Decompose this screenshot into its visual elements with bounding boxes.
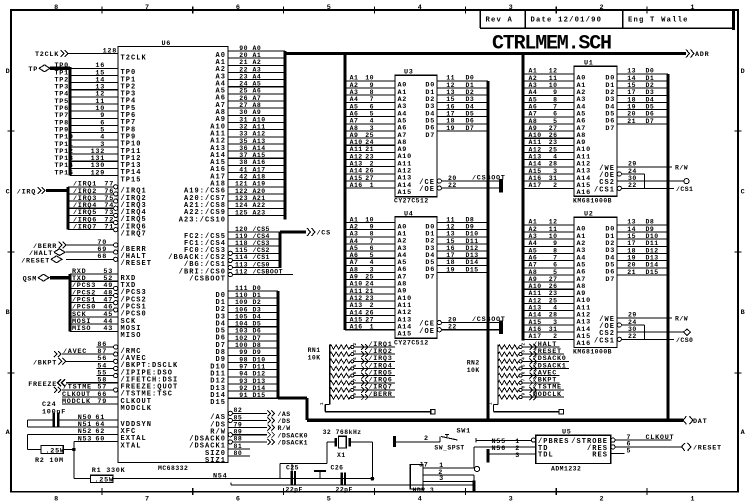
U6 pin /IRQ5 bbox=[68, 214, 114, 216]
svg-text:A12: A12 bbox=[253, 131, 266, 138]
svg-text:21: 21 bbox=[365, 288, 374, 295]
RN1 resistor 1 bbox=[330, 345, 351, 349]
U2 pin /CS1 bbox=[617, 337, 621, 341]
wire osc loop bbox=[279, 463, 281, 478]
U6 pin /BG:/CS1 bbox=[232, 259, 280, 261]
svg-text:.25W: .25W bbox=[95, 477, 114, 485]
svg-text:C26: C26 bbox=[331, 464, 344, 471]
svg-text:2: 2 bbox=[424, 435, 429, 443]
svg-text:23: 23 bbox=[365, 295, 374, 302]
U6 pin /PCS2 bbox=[70, 295, 114, 297]
svg-text:3: 3 bbox=[370, 125, 374, 132]
U3 pin D6 bbox=[437, 123, 488, 125]
svg-text:N56: N56 bbox=[492, 445, 506, 453]
svg-text:24: 24 bbox=[365, 139, 374, 146]
U1 pin CS2 bbox=[617, 180, 684, 182]
svg-text:A9: A9 bbox=[350, 274, 359, 281]
svg-text:A6: A6 bbox=[253, 88, 262, 95]
svg-text:D1: D1 bbox=[253, 292, 262, 299]
svg-text:/DSACK0: /DSACK0 bbox=[278, 432, 308, 439]
svg-text:25: 25 bbox=[239, 88, 248, 95]
svg-text:20: 20 bbox=[239, 52, 248, 59]
svg-text:D14: D14 bbox=[646, 262, 659, 269]
U6 pin TP5 bbox=[70, 103, 118, 105]
svg-text:129: 129 bbox=[91, 169, 105, 177]
test point on N54 bbox=[314, 470, 326, 472]
svg-text:D0: D0 bbox=[253, 285, 262, 292]
svg-text:D1: D1 bbox=[466, 82, 475, 89]
svg-text:R/W: R/W bbox=[675, 164, 688, 171]
wire N54 bbox=[113, 478, 372, 480]
svg-text:SW_SPST: SW_SPST bbox=[434, 444, 464, 451]
RN2 resistor 2 bbox=[498, 352, 519, 356]
svg-text:A10: A10 bbox=[529, 283, 542, 290]
svg-text:B: B bbox=[6, 309, 11, 317]
svg-text:98: 98 bbox=[239, 356, 248, 363]
svg-text:D15: D15 bbox=[646, 269, 659, 276]
U6 pin 128 T2CLK bbox=[69, 53, 119, 55]
svg-text:D11: D11 bbox=[646, 240, 659, 247]
svg-text:26: 26 bbox=[365, 168, 374, 175]
svg-text:26: 26 bbox=[239, 95, 248, 102]
svg-text:N53: N53 bbox=[78, 435, 92, 443]
U6 pin A3 bbox=[228, 71, 285, 73]
U4 pin D15 bbox=[437, 272, 488, 274]
svg-text:8: 8 bbox=[370, 231, 374, 238]
svg-text:A10: A10 bbox=[253, 116, 266, 123]
wire TP bus bbox=[50, 67, 70, 70]
RN2 resistor 5 bbox=[498, 373, 519, 377]
svg-text:R2 10M: R2 10M bbox=[35, 457, 64, 465]
U6 pin MODCLK bbox=[62, 403, 118, 405]
U6 pin /BGACK:/CS2 bbox=[232, 252, 280, 254]
U6 pin /IPIPE:DSO bbox=[97, 367, 114, 369]
port /RESET bbox=[682, 443, 685, 451]
U1 pin A8 bbox=[523, 130, 574, 132]
wire U6 data bus bbox=[276, 291, 279, 398]
svg-text:5: 5 bbox=[370, 110, 374, 117]
svg-text:15: 15 bbox=[446, 96, 455, 103]
U6 pin /IRQ2 bbox=[68, 193, 114, 195]
U6 pin D13 bbox=[228, 383, 278, 385]
svg-text:2: 2 bbox=[599, 496, 604, 504]
U6 pin SIZ0 bbox=[228, 448, 250, 450]
U1 pin /WE bbox=[617, 166, 672, 168]
svg-text:A11: A11 bbox=[350, 288, 363, 295]
svg-text:D6: D6 bbox=[466, 118, 475, 125]
svg-text:D15: D15 bbox=[466, 266, 479, 273]
U3 pin A14 bbox=[345, 180, 395, 182]
svg-text:A13: A13 bbox=[350, 302, 363, 309]
svg-text:A16: A16 bbox=[529, 175, 542, 182]
svg-text:A1: A1 bbox=[350, 216, 359, 223]
svg-text:A2: A2 bbox=[350, 223, 359, 230]
svg-text:22: 22 bbox=[239, 66, 248, 73]
svg-text:13: 13 bbox=[627, 68, 636, 75]
svg-text:/BERR: /BERR bbox=[369, 391, 393, 399]
svg-text:104: 104 bbox=[235, 321, 248, 328]
svg-text:XTAL: XTAL bbox=[121, 442, 142, 450]
svg-text:DAT: DAT bbox=[693, 418, 707, 426]
U4 pin /OE bbox=[437, 328, 441, 332]
U6 pin A13 bbox=[228, 143, 285, 145]
svg-text:A8: A8 bbox=[253, 102, 262, 109]
node /CSBOOT at U3 bbox=[499, 179, 503, 193]
svg-text:D13: D13 bbox=[466, 252, 479, 259]
svg-text:5: 5 bbox=[553, 269, 557, 276]
svg-text:A5: A5 bbox=[529, 96, 538, 103]
svg-text:A16: A16 bbox=[350, 182, 363, 189]
svg-text:RES: RES bbox=[592, 452, 608, 460]
svg-text:D2: D2 bbox=[253, 299, 262, 306]
svg-text:114: 114 bbox=[235, 254, 248, 261]
U4 pin A6 bbox=[345, 264, 395, 266]
svg-text:7: 7 bbox=[370, 238, 374, 245]
U4 pin D12 bbox=[437, 250, 488, 252]
svg-text:1: 1 bbox=[690, 496, 695, 504]
svg-text:14: 14 bbox=[627, 75, 636, 82]
svg-text:D14: D14 bbox=[253, 385, 266, 392]
svg-text:/CS0: /CS0 bbox=[676, 337, 693, 344]
svg-text:15: 15 bbox=[627, 82, 636, 89]
svg-text:23: 23 bbox=[365, 153, 374, 160]
svg-text:38: 38 bbox=[239, 159, 248, 166]
svg-text:A10: A10 bbox=[350, 281, 363, 288]
svg-text:U6: U6 bbox=[162, 40, 172, 48]
svg-text:D7: D7 bbox=[425, 132, 435, 140]
svg-text:93: 93 bbox=[239, 378, 248, 385]
svg-text:3: 3 bbox=[370, 266, 374, 273]
svg-text:23: 23 bbox=[239, 73, 248, 80]
svg-text:D10: D10 bbox=[466, 231, 479, 238]
U1 pin A4 bbox=[523, 102, 574, 104]
svg-text:A10: A10 bbox=[529, 132, 542, 139]
U6 pin A15 bbox=[228, 157, 285, 159]
RN2 resistor 3 bbox=[498, 359, 519, 363]
svg-text:88: 88 bbox=[234, 436, 243, 443]
svg-text:22: 22 bbox=[628, 182, 637, 189]
RN1 resistor 8 bbox=[330, 395, 351, 399]
svg-text:U5: U5 bbox=[562, 429, 572, 437]
svg-text:7: 7 bbox=[145, 4, 150, 12]
sram U2 box bbox=[574, 217, 617, 347]
svg-text:/AS: /AS bbox=[278, 411, 291, 418]
svg-text:118: 118 bbox=[235, 240, 248, 247]
svg-text:81: 81 bbox=[234, 443, 243, 450]
svg-text:U4: U4 bbox=[404, 210, 414, 218]
svg-text:110: 110 bbox=[235, 292, 248, 299]
svg-text:9: 9 bbox=[370, 223, 374, 230]
RN2 resistor 7 bbox=[498, 388, 519, 392]
svg-text:71: 71 bbox=[104, 224, 114, 232]
svg-text:3: 3 bbox=[509, 4, 514, 12]
U6 pin /BKPT:DSCLK bbox=[66, 360, 114, 362]
svg-text:A14: A14 bbox=[529, 161, 542, 168]
svg-text:D13: D13 bbox=[646, 254, 659, 261]
svg-text:D12: D12 bbox=[466, 245, 479, 252]
svg-text:/OE: /OE bbox=[419, 186, 435, 194]
svg-text:D4: D4 bbox=[646, 96, 655, 103]
svg-text:D8: D8 bbox=[253, 342, 262, 349]
svg-text:A23:/CS10: A23:/CS10 bbox=[179, 216, 226, 224]
U6 pin A0 bbox=[228, 50, 285, 52]
RN2 resistor 4 bbox=[498, 366, 519, 370]
svg-text:4: 4 bbox=[553, 305, 557, 312]
svg-text:A15: A15 bbox=[350, 316, 363, 323]
U2 pin D12 bbox=[617, 253, 668, 255]
U6 pin /IRQ7 bbox=[68, 229, 114, 231]
svg-text:MODCLK: MODCLK bbox=[121, 405, 153, 413]
U6 pin TP3 bbox=[70, 89, 118, 91]
svg-text:18: 18 bbox=[627, 247, 636, 254]
U6 pin A5 bbox=[228, 86, 285, 88]
U6 pin TP8 bbox=[70, 125, 118, 127]
U6 pin /RMC bbox=[97, 346, 114, 348]
wire R1 left bbox=[74, 478, 91, 480]
svg-text:32: 32 bbox=[239, 123, 248, 130]
port DAT bbox=[683, 416, 686, 424]
resistor R2 bbox=[41, 446, 63, 454]
svg-text:D5: D5 bbox=[646, 103, 655, 110]
svg-text:Rev A: Rev A bbox=[486, 17, 514, 25]
svg-text:D14: D14 bbox=[466, 259, 479, 266]
U3 pin A6 bbox=[345, 123, 395, 125]
RN1 resistor 5 bbox=[330, 373, 351, 377]
U6 pin /IFETCH:DSI bbox=[97, 375, 114, 377]
RN2 resistor 1 bbox=[498, 345, 519, 349]
svg-text:/CS1: /CS1 bbox=[676, 186, 693, 193]
svg-text:D12: D12 bbox=[253, 371, 266, 378]
svg-text:21: 21 bbox=[627, 269, 636, 276]
U6 pin /AS bbox=[232, 412, 267, 414]
U6 pin A4 bbox=[228, 79, 285, 81]
U6 pin /DSACK0 bbox=[232, 434, 267, 436]
svg-text:18: 18 bbox=[446, 259, 455, 266]
wire IRQ bus bbox=[46, 189, 68, 192]
svg-text:11: 11 bbox=[446, 75, 455, 82]
RN1 resistor 3 bbox=[330, 359, 351, 363]
svg-text:3: 3 bbox=[439, 475, 444, 483]
U6 pin FREEZE:QUOT bbox=[66, 382, 118, 384]
U2 pin /OE bbox=[617, 323, 621, 327]
svg-text:A1: A1 bbox=[529, 68, 538, 75]
U3 pin D7 bbox=[437, 130, 488, 132]
svg-text:4: 4 bbox=[418, 4, 423, 12]
svg-text:90: 90 bbox=[239, 45, 248, 52]
svg-text:125: 125 bbox=[235, 209, 248, 216]
svg-text:128: 128 bbox=[103, 47, 117, 55]
U1 pin D7 bbox=[617, 123, 668, 125]
U3 pin A5 bbox=[345, 116, 395, 118]
svg-text:A5: A5 bbox=[253, 81, 262, 88]
U6 pin D4 bbox=[228, 319, 278, 321]
U4 pin /CE bbox=[437, 321, 441, 325]
wire ground return bbox=[231, 484, 474, 486]
title block bbox=[479, 11, 481, 28]
svg-text:18: 18 bbox=[446, 118, 455, 125]
J7 pin 1 bbox=[423, 467, 474, 469]
U2 pin A0 bbox=[523, 224, 574, 226]
U6 pin D1 bbox=[228, 297, 278, 299]
J7 pin 2 bbox=[423, 474, 474, 476]
svg-text:A13: A13 bbox=[529, 305, 542, 312]
svg-text:D7: D7 bbox=[605, 276, 615, 284]
U6 pin TP2 bbox=[70, 82, 118, 84]
wire /OE to /CS1 bbox=[644, 174, 646, 188]
svg-text:C: C bbox=[741, 188, 746, 196]
wire N53 riser bbox=[73, 441, 75, 478]
U2 pin D8 bbox=[617, 224, 668, 226]
svg-text:60: 60 bbox=[95, 435, 105, 443]
svg-text:68: 68 bbox=[97, 253, 107, 261]
U4 pin A0 bbox=[345, 222, 395, 224]
svg-text:RN2: RN2 bbox=[467, 360, 480, 367]
svg-text:12: 12 bbox=[549, 68, 558, 75]
svg-text:7: 7 bbox=[145, 496, 150, 504]
svg-text:A5: A5 bbox=[529, 247, 538, 254]
U6 pin A11 bbox=[228, 129, 285, 131]
U4 pin A10 bbox=[345, 293, 395, 295]
svg-text:A11: A11 bbox=[253, 123, 266, 130]
wire RN1 common pin 1 bbox=[325, 404, 330, 406]
svg-text:X1: X1 bbox=[337, 452, 346, 459]
svg-text:D: D bbox=[741, 68, 746, 76]
svg-text:TP: TP bbox=[28, 66, 38, 74]
svg-text:19: 19 bbox=[627, 254, 636, 261]
svg-text:19: 19 bbox=[446, 266, 455, 273]
svg-text:105: 105 bbox=[235, 313, 248, 320]
svg-text:D7: D7 bbox=[605, 125, 615, 133]
U4 pin A2 bbox=[345, 236, 395, 238]
svg-text:10K: 10K bbox=[308, 355, 321, 362]
U3 pin A3 bbox=[345, 101, 395, 103]
svg-text:/DSACK1: /DSACK1 bbox=[278, 440, 308, 447]
svg-text:A16: A16 bbox=[529, 326, 542, 333]
svg-text:A12: A12 bbox=[529, 146, 542, 153]
U6 pin /DS bbox=[232, 419, 267, 421]
svg-text:CY27C512: CY27C512 bbox=[394, 198, 429, 205]
svg-text:3: 3 bbox=[509, 496, 514, 504]
U3 pin A8 bbox=[345, 137, 395, 139]
RN2 common bbox=[497, 345, 499, 405]
U4 pin A12 bbox=[345, 307, 395, 309]
U1 pin A2 bbox=[523, 87, 574, 89]
svg-text:4: 4 bbox=[418, 496, 423, 504]
svg-text:A4: A4 bbox=[350, 238, 359, 245]
svg-text:A4: A4 bbox=[350, 96, 359, 103]
svg-text:A2: A2 bbox=[350, 82, 359, 89]
U6 pin A19 bbox=[228, 186, 285, 188]
svg-text:A22: A22 bbox=[253, 202, 266, 209]
svg-text:21: 21 bbox=[365, 146, 374, 153]
U2 pin A7 bbox=[523, 274, 574, 276]
svg-text:12: 12 bbox=[549, 219, 558, 226]
svg-text:A8: A8 bbox=[350, 125, 359, 132]
U6 pin TP13 bbox=[70, 160, 118, 162]
svg-text:/IRQ7: /IRQ7 bbox=[73, 224, 97, 232]
U1 pin A16 bbox=[523, 187, 574, 189]
U2 pin A9 bbox=[523, 288, 574, 290]
svg-text:6: 6 bbox=[236, 496, 241, 504]
U6 pin RXD bbox=[70, 273, 118, 275]
U6 pin /PCS1 bbox=[70, 302, 114, 304]
RN1 resistor 7 bbox=[330, 388, 351, 392]
svg-text:CLKOUT: CLKOUT bbox=[646, 434, 675, 442]
U3 pin D0 bbox=[437, 80, 488, 82]
svg-text:/CS1: /CS1 bbox=[594, 186, 615, 194]
svg-text:KM681000B: KM681000B bbox=[573, 198, 612, 205]
svg-text:123: 123 bbox=[235, 195, 248, 202]
U4 pin A5 bbox=[345, 257, 395, 259]
U6 pin /TSTME:TSC bbox=[62, 389, 114, 391]
U2 pin /WE bbox=[617, 317, 672, 319]
U1 pin D0 bbox=[617, 73, 668, 75]
svg-text:100: 100 bbox=[235, 342, 248, 349]
U3 pin D5 bbox=[437, 116, 488, 118]
svg-text:A14: A14 bbox=[253, 145, 266, 152]
svg-text:1: 1 bbox=[690, 4, 695, 12]
svg-text:/CS4: /CS4 bbox=[253, 233, 270, 240]
svg-text:A6: A6 bbox=[350, 252, 359, 259]
U6 pin MOSI bbox=[70, 323, 118, 325]
U6 pin /IRQ3 bbox=[68, 200, 114, 202]
svg-text:/DS: /DS bbox=[278, 418, 291, 425]
U3 pin A9 bbox=[345, 144, 395, 146]
U4 pin A4 bbox=[345, 250, 395, 252]
svg-text:A10: A10 bbox=[350, 139, 363, 146]
svg-text:3: 3 bbox=[515, 452, 520, 460]
U6 pin N50 VDDSYN bbox=[27, 419, 52, 421]
svg-text:79: 79 bbox=[97, 398, 107, 406]
svg-text:6: 6 bbox=[236, 4, 241, 12]
svg-text:D12: D12 bbox=[646, 247, 659, 254]
U6 pin D12 bbox=[228, 376, 278, 378]
U6 pin 70 /BERR bbox=[66, 244, 114, 246]
svg-text:24: 24 bbox=[628, 168, 637, 175]
svg-text:A1: A1 bbox=[253, 52, 262, 59]
U4 pin A13 bbox=[345, 314, 395, 316]
U1 pin /OE bbox=[617, 172, 621, 176]
svg-text:20: 20 bbox=[627, 262, 636, 269]
U6 pin CLKOUT bbox=[62, 396, 118, 398]
svg-text:27: 27 bbox=[239, 102, 248, 109]
svg-text:8: 8 bbox=[54, 496, 59, 504]
U4 pin D8 bbox=[437, 222, 488, 224]
svg-text:A2: A2 bbox=[529, 75, 538, 82]
U6 pin A14 bbox=[228, 150, 285, 152]
svg-text:A3: A3 bbox=[350, 89, 359, 96]
svg-text:/RESET: /RESET bbox=[693, 445, 722, 453]
svg-text:MISO: MISO bbox=[72, 325, 91, 333]
wire DAT bus horizontal bbox=[307, 419, 683, 422]
U4 pin A1 bbox=[345, 229, 395, 231]
U3 pin A0 bbox=[345, 80, 395, 82]
svg-text:A16: A16 bbox=[577, 189, 591, 197]
U6 pin TP15 bbox=[70, 175, 118, 177]
svg-text:27: 27 bbox=[365, 175, 374, 182]
svg-text:1: 1 bbox=[370, 324, 374, 331]
svg-text:20: 20 bbox=[627, 111, 636, 118]
node open circle bbox=[474, 466, 479, 471]
U6 pin SCK bbox=[70, 316, 118, 318]
svg-text:2: 2 bbox=[599, 4, 604, 12]
U4 pin D9 bbox=[437, 229, 488, 231]
svg-text:26: 26 bbox=[549, 283, 558, 290]
svg-text:6: 6 bbox=[370, 245, 374, 252]
U6 pin /DSACK1 bbox=[232, 441, 267, 443]
U6 pin A12 bbox=[228, 136, 285, 138]
svg-text:A19: A19 bbox=[253, 181, 266, 188]
